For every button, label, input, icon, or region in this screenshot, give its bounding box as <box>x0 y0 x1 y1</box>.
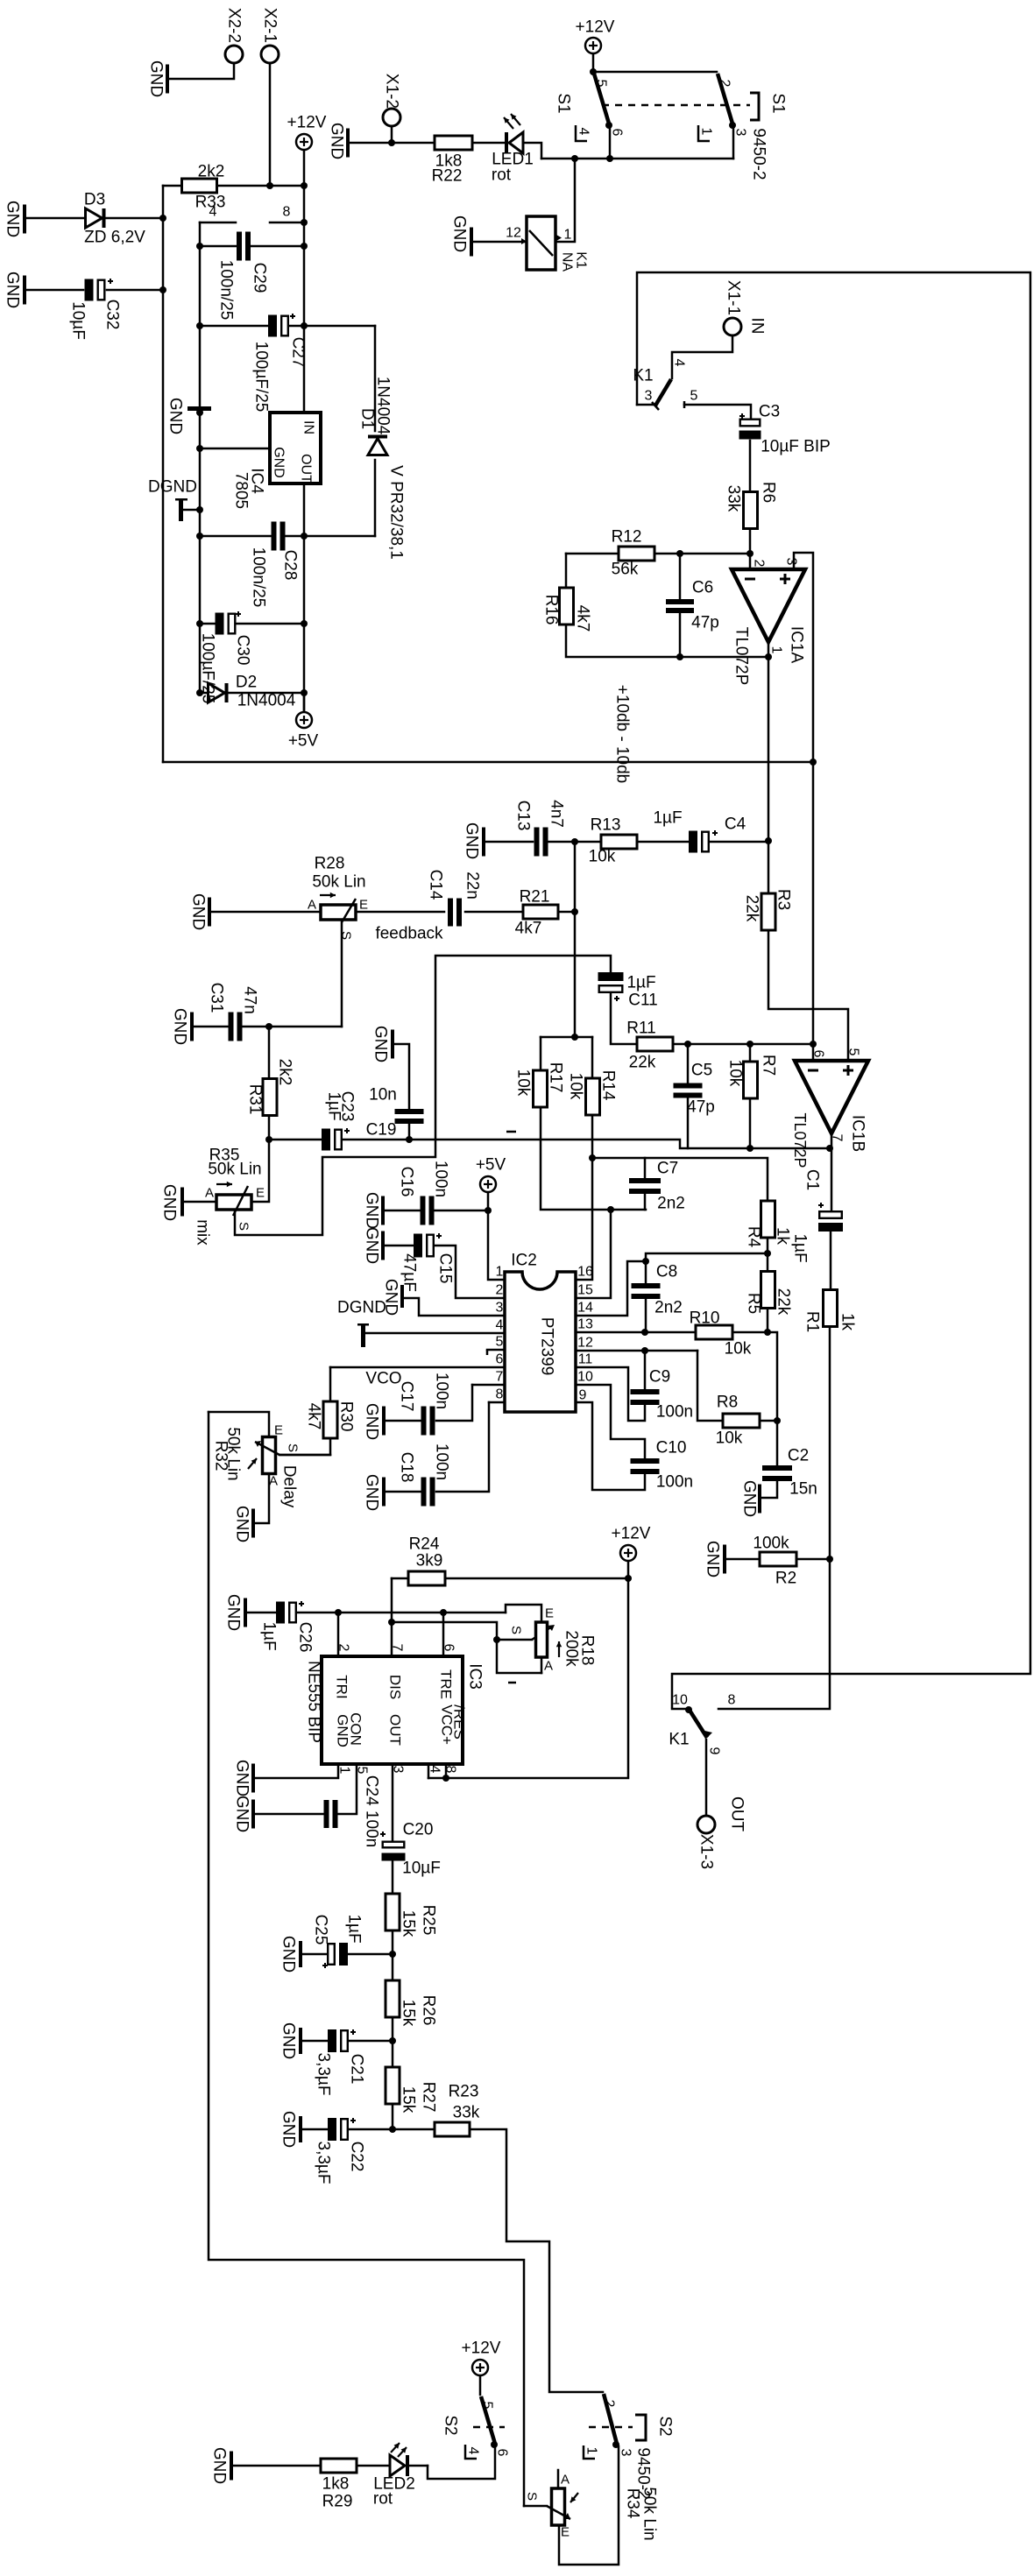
svg-text:C19: C19 <box>366 1121 397 1140</box>
svg-text:R26: R26 <box>420 1995 438 2026</box>
svg-text:IC3: IC3 <box>466 1663 485 1690</box>
svg-text:mix: mix <box>194 1219 212 1246</box>
svg-text:A: A <box>205 1186 214 1201</box>
svg-text:R3: R3 <box>775 889 793 910</box>
svg-text:GND: GND <box>363 1227 381 1264</box>
svg-text:+12V: +12V <box>576 18 615 37</box>
svg-text:ZD 6,2V: ZD 6,2V <box>84 229 145 247</box>
svg-text:+12V: +12V <box>287 114 327 132</box>
svg-text:3: 3 <box>619 2449 633 2457</box>
svg-text:3: 3 <box>784 558 799 566</box>
svg-text:R10: R10 <box>690 1309 720 1328</box>
svg-text:4: 4 <box>428 1766 442 1774</box>
svg-text:10k: 10k <box>514 1069 533 1097</box>
svg-text:R13: R13 <box>591 816 621 835</box>
svg-text:C4: C4 <box>725 815 746 834</box>
svg-text:C1: C1 <box>803 1169 822 1190</box>
svg-text:GND: GND <box>279 2022 298 2059</box>
svg-text:16: 16 <box>577 1265 593 1280</box>
svg-text:R12: R12 <box>612 528 642 547</box>
svg-text:100n: 100n <box>656 1403 693 1422</box>
svg-text:OUT: OUT <box>387 1714 404 1746</box>
svg-text:4n7: 4n7 <box>548 800 566 828</box>
svg-text:X2-2: X2-2 <box>225 8 244 43</box>
svg-text:R5: R5 <box>745 1293 763 1314</box>
svg-text:200k: 200k <box>562 1630 581 1667</box>
svg-text:10: 10 <box>577 1370 593 1385</box>
svg-text:K1: K1 <box>669 1731 689 1749</box>
svg-text:R24: R24 <box>409 1535 440 1554</box>
svg-text:1µF: 1µF <box>325 1091 343 1120</box>
svg-text:9: 9 <box>707 1747 722 1755</box>
svg-text:15: 15 <box>577 1283 593 1298</box>
svg-text:6: 6 <box>811 1050 826 1058</box>
svg-text:1µF: 1µF <box>345 1914 364 1943</box>
svg-text:DIS: DIS <box>387 1675 404 1699</box>
svg-text:C7: C7 <box>657 1160 678 1178</box>
svg-text:100n/25: 100n/25 <box>217 260 236 321</box>
svg-text:GND: GND <box>233 1796 251 1832</box>
svg-text:GND: GND <box>363 1403 381 1440</box>
svg-text:3: 3 <box>733 129 748 137</box>
svg-text:100n: 100n <box>433 1443 451 1480</box>
svg-text:R21: R21 <box>520 888 550 907</box>
svg-text:R22: R22 <box>432 167 463 186</box>
svg-text:K1: K1 <box>574 251 589 269</box>
svg-text:DGND: DGND <box>337 1299 386 1317</box>
svg-text:9: 9 <box>579 1388 587 1403</box>
svg-text:+12V: +12V <box>612 1525 651 1543</box>
svg-text:R31: R31 <box>246 1084 265 1115</box>
svg-text:100n/25: 100n/25 <box>250 547 268 608</box>
svg-text:100k: 100k <box>753 1535 789 1553</box>
svg-text:S: S <box>509 1626 524 1634</box>
svg-text:S2: S2 <box>656 2416 675 2436</box>
svg-text:R2: R2 <box>775 1570 796 1588</box>
svg-text:X1-2: X1-2 <box>383 74 401 109</box>
svg-text:1: 1 <box>496 1265 504 1280</box>
svg-text:feedback: feedback <box>375 925 443 943</box>
svg-text:5: 5 <box>496 1335 504 1350</box>
svg-text:C22: C22 <box>348 2142 366 2172</box>
svg-text:C3: C3 <box>759 403 780 421</box>
svg-text:GND: GND <box>233 1506 251 1542</box>
svg-text:S: S <box>286 1443 301 1452</box>
svg-text:2: 2 <box>752 560 767 568</box>
svg-text:10k: 10k <box>716 1429 743 1448</box>
svg-text:IN: IN <box>748 318 767 335</box>
svg-text:GND: GND <box>363 1192 381 1229</box>
svg-text:6: 6 <box>442 1644 456 1652</box>
svg-text:R8: R8 <box>717 1394 738 1412</box>
svg-text:3: 3 <box>496 1301 504 1316</box>
svg-text:C20: C20 <box>403 1821 434 1839</box>
svg-text:E: E <box>274 1423 283 1438</box>
svg-text:56k: 56k <box>612 561 639 579</box>
svg-text:X1-3: X1-3 <box>697 1834 716 1869</box>
svg-text:1: 1 <box>584 2447 599 2455</box>
svg-text:CON: CON <box>348 1712 364 1746</box>
svg-text:5: 5 <box>480 2402 495 2410</box>
svg-text:GND: GND <box>279 1936 298 1973</box>
svg-text:rot: rot <box>373 2490 393 2509</box>
svg-text:15n: 15n <box>789 1480 817 1499</box>
svg-text:1N4004: 1N4004 <box>237 692 296 710</box>
svg-text:S: S <box>525 2492 540 2501</box>
svg-text:1µF: 1µF <box>791 1233 810 1262</box>
svg-text:4k7: 4k7 <box>515 920 542 938</box>
svg-text:E: E <box>545 1606 554 1621</box>
svg-text:+5V: +5V <box>476 1156 506 1175</box>
svg-text:1: 1 <box>337 1767 352 1775</box>
svg-text:4: 4 <box>496 1318 504 1333</box>
svg-text:5: 5 <box>594 80 609 88</box>
svg-text:R29: R29 <box>322 2493 353 2511</box>
svg-text:15k: 15k <box>400 2000 418 2027</box>
svg-text:22k: 22k <box>629 1054 656 1072</box>
svg-text:R23: R23 <box>449 2083 479 2101</box>
svg-text:GND: GND <box>463 822 481 859</box>
svg-text:2: 2 <box>602 2400 617 2408</box>
svg-text:10µF BIP: 10µF BIP <box>761 438 831 456</box>
svg-text:1µF: 1µF <box>260 1621 279 1650</box>
svg-text:R17: R17 <box>547 1062 565 1093</box>
svg-text:1k: 1k <box>838 1313 857 1331</box>
svg-text:5: 5 <box>690 389 698 404</box>
svg-text:6: 6 <box>495 2449 510 2457</box>
svg-text:C29: C29 <box>251 263 269 293</box>
svg-text:50k Lin: 50k Lin <box>640 2487 659 2540</box>
svg-text:R32: R32 <box>212 1441 230 1471</box>
svg-text:GND: GND <box>166 398 185 434</box>
svg-text:C28: C28 <box>281 550 300 581</box>
svg-text:rot: rot <box>492 166 512 185</box>
svg-text:3,3µF: 3,3µF <box>315 2142 333 2184</box>
svg-text:C21: C21 <box>348 2054 366 2085</box>
svg-text:GND: GND <box>704 1541 722 1577</box>
svg-text:2k2: 2k2 <box>276 1059 294 1086</box>
svg-text:C32: C32 <box>103 300 122 330</box>
svg-text:V PR32/38,1: V PR32/38,1 <box>387 465 406 560</box>
svg-text:C24 100n: C24 100n <box>363 1775 381 1847</box>
svg-text:C31: C31 <box>208 983 226 1013</box>
svg-text:GND: GND <box>328 123 346 159</box>
svg-text:4: 4 <box>466 2447 481 2455</box>
svg-text:K1: K1 <box>633 367 653 385</box>
svg-text:A: A <box>544 1659 553 1674</box>
svg-text:8: 8 <box>443 1766 458 1774</box>
svg-text:33k: 33k <box>453 2104 480 2122</box>
svg-text:C9: C9 <box>649 1368 670 1387</box>
svg-text:GND: GND <box>450 215 469 252</box>
svg-text:C6: C6 <box>692 579 713 597</box>
svg-text:22n: 22n <box>463 872 482 900</box>
svg-text:3: 3 <box>391 1766 406 1774</box>
svg-text:GND: GND <box>371 1026 390 1062</box>
svg-text:D1: D1 <box>358 408 377 429</box>
svg-text:S1: S1 <box>769 93 788 113</box>
svg-text:R27: R27 <box>420 2082 438 2113</box>
svg-text:GND: GND <box>272 447 287 478</box>
svg-text:C11: C11 <box>628 992 657 1010</box>
svg-text:GND: GND <box>224 1594 243 1631</box>
svg-text:10k: 10k <box>567 1073 585 1100</box>
svg-text:C18: C18 <box>398 1452 416 1483</box>
svg-text:OUT: OUT <box>299 454 314 483</box>
svg-text:TL072P: TL072P <box>791 1112 809 1168</box>
svg-text:47p: 47p <box>687 1098 715 1117</box>
svg-text:S: S <box>237 1222 251 1231</box>
svg-text:2n2: 2n2 <box>657 1195 685 1213</box>
svg-text:R1: R1 <box>803 1311 822 1332</box>
svg-text:GND: GND <box>160 1184 179 1221</box>
svg-text:GND: GND <box>210 2447 229 2484</box>
svg-text:10k: 10k <box>725 1340 752 1359</box>
svg-text:R14: R14 <box>599 1070 618 1101</box>
svg-text:100n: 100n <box>656 1473 693 1492</box>
svg-text:100µF/25: 100µF/25 <box>252 342 271 413</box>
svg-text:DGND: DGND <box>148 478 197 497</box>
svg-text:10: 10 <box>672 1693 688 1708</box>
svg-text:8: 8 <box>283 205 291 220</box>
svg-text:2: 2 <box>718 80 732 88</box>
svg-text:D2: D2 <box>236 674 257 692</box>
svg-text:R16: R16 <box>542 595 561 625</box>
svg-text:R28: R28 <box>315 855 345 873</box>
svg-text:C5: C5 <box>691 1062 712 1080</box>
svg-text:R11: R11 <box>626 1020 655 1038</box>
svg-text:GND: GND <box>4 272 22 308</box>
svg-text:TL072P: TL072P <box>732 627 751 686</box>
svg-text:GND: GND <box>363 1474 381 1511</box>
svg-text:5: 5 <box>355 1767 370 1775</box>
svg-text:11: 11 <box>578 1352 593 1367</box>
svg-text:4k7: 4k7 <box>305 1403 323 1430</box>
svg-text:8: 8 <box>728 1693 736 1708</box>
svg-text:1k: 1k <box>774 1227 792 1246</box>
svg-text:4: 4 <box>577 128 591 136</box>
svg-text:/RES: /RES <box>451 1704 468 1740</box>
svg-text:6: 6 <box>496 1352 504 1367</box>
svg-text:S: S <box>339 931 354 940</box>
svg-text:IC1A: IC1A <box>788 626 806 664</box>
svg-text:TRI: TRI <box>334 1675 350 1698</box>
svg-text:22k: 22k <box>775 1288 793 1316</box>
svg-text:7: 7 <box>390 1644 405 1652</box>
svg-text:3: 3 <box>645 389 653 404</box>
svg-text:47µF: 47µF <box>400 1253 419 1292</box>
svg-text:X2-1: X2-1 <box>261 8 279 43</box>
svg-text:C2: C2 <box>788 1447 809 1465</box>
svg-text:10n: 10n <box>369 1086 397 1105</box>
svg-text:A: A <box>308 898 316 913</box>
svg-text:12: 12 <box>506 226 521 241</box>
svg-text:R4: R4 <box>745 1226 763 1248</box>
svg-text:10k: 10k <box>726 1060 745 1087</box>
svg-text:2: 2 <box>336 1644 351 1652</box>
svg-text:13: 13 <box>577 1317 593 1332</box>
svg-text:1: 1 <box>769 646 784 654</box>
svg-text:R34: R34 <box>624 2488 642 2519</box>
svg-text:1: 1 <box>564 228 572 243</box>
svg-text:C10: C10 <box>656 1439 687 1457</box>
svg-text:100n: 100n <box>433 1373 451 1409</box>
svg-text:C17: C17 <box>398 1381 416 1412</box>
svg-text:50k Lin: 50k Lin <box>208 1161 261 1179</box>
svg-text:1: 1 <box>699 128 714 136</box>
svg-text:TRE: TRE <box>438 1669 455 1699</box>
svg-text:1k8: 1k8 <box>322 2475 350 2494</box>
svg-text:Delay: Delay <box>280 1465 299 1508</box>
svg-text:C15: C15 <box>436 1253 455 1284</box>
svg-text:4: 4 <box>672 359 687 367</box>
svg-text:47p: 47p <box>691 614 719 632</box>
svg-text:3,3µF: 3,3µF <box>315 2053 333 2096</box>
svg-text:2: 2 <box>496 1283 504 1298</box>
svg-text:C8: C8 <box>656 1263 677 1281</box>
svg-text:4: 4 <box>209 205 217 220</box>
svg-text:E: E <box>256 1186 265 1201</box>
svg-text:E: E <box>359 898 368 913</box>
svg-text:10µF: 10µF <box>69 301 88 340</box>
svg-text:1µF: 1µF <box>653 809 682 828</box>
svg-text:IN: IN <box>301 420 316 434</box>
svg-text:R30: R30 <box>337 1401 356 1432</box>
svg-text:R6: R6 <box>760 482 778 503</box>
svg-text:GND: GND <box>147 60 166 97</box>
svg-text:C26: C26 <box>296 1622 315 1653</box>
svg-text:GND: GND <box>740 1480 759 1517</box>
svg-text:NE555 BIP: NE555 BIP <box>305 1661 323 1743</box>
svg-text:10k: 10k <box>589 848 616 866</box>
svg-text:GND: GND <box>233 1760 251 1796</box>
svg-text:9450-2: 9450-2 <box>750 128 768 180</box>
svg-text:+5V: +5V <box>288 732 319 751</box>
svg-text:7805: 7805 <box>232 472 251 509</box>
svg-text:50k Lin: 50k Lin <box>312 873 365 892</box>
svg-text:R25: R25 <box>420 1905 438 1936</box>
svg-text:A: A <box>269 1474 278 1489</box>
svg-text:C25: C25 <box>312 1915 330 1945</box>
svg-text:12: 12 <box>577 1336 593 1351</box>
svg-text:VCO: VCO <box>365 1370 401 1388</box>
svg-text:C16: C16 <box>398 1167 416 1197</box>
svg-text:NA: NA <box>560 252 575 272</box>
svg-text:+10db - 10db: +10db - 10db <box>613 685 632 784</box>
svg-text:100µF/25: 100µF/25 <box>199 633 217 704</box>
svg-text:7: 7 <box>496 1370 504 1385</box>
svg-text:IC1B: IC1B <box>849 1115 867 1152</box>
svg-text:22k: 22k <box>743 895 761 922</box>
svg-text:OUT: OUT <box>728 1796 746 1832</box>
svg-text:S1: S1 <box>555 93 573 113</box>
svg-text:C13: C13 <box>514 801 533 831</box>
svg-text:A: A <box>561 2473 570 2488</box>
svg-text:E: E <box>561 2525 570 2540</box>
svg-text:GND: GND <box>189 893 208 930</box>
svg-text:100n: 100n <box>432 1161 450 1197</box>
svg-text:+12V: +12V <box>462 2340 501 2358</box>
svg-text:GND: GND <box>279 2111 298 2148</box>
svg-text:15k: 15k <box>400 1910 418 1937</box>
svg-text:7: 7 <box>830 1134 845 1142</box>
svg-text:S2: S2 <box>442 2415 460 2435</box>
svg-text:1µF: 1µF <box>626 974 655 992</box>
svg-text:3k9: 3k9 <box>416 1552 443 1570</box>
svg-text:D3: D3 <box>84 191 105 209</box>
svg-text:GND: GND <box>4 201 22 237</box>
svg-text:X1-1: X1-1 <box>725 280 743 315</box>
svg-text:C14: C14 <box>427 870 445 900</box>
svg-text:47n: 47n <box>241 986 259 1014</box>
svg-text:5: 5 <box>846 1048 861 1056</box>
svg-text:14: 14 <box>577 1301 593 1316</box>
svg-text:33k: 33k <box>725 485 743 512</box>
svg-text:6: 6 <box>610 129 625 137</box>
svg-text:IC2: IC2 <box>511 1252 537 1270</box>
svg-text:15k: 15k <box>400 2086 418 2114</box>
svg-text:2k2: 2k2 <box>198 163 225 181</box>
svg-text:4k7: 4k7 <box>574 605 592 632</box>
svg-text:C27: C27 <box>289 337 308 368</box>
svg-text:10µF: 10µF <box>402 1860 441 1878</box>
svg-text:GND: GND <box>171 1008 189 1045</box>
svg-text:8: 8 <box>496 1387 504 1402</box>
svg-text:C30: C30 <box>234 635 252 666</box>
svg-text:R7: R7 <box>760 1055 778 1076</box>
svg-text:2n2: 2n2 <box>654 1299 683 1317</box>
svg-text:PT2399: PT2399 <box>538 1317 556 1376</box>
